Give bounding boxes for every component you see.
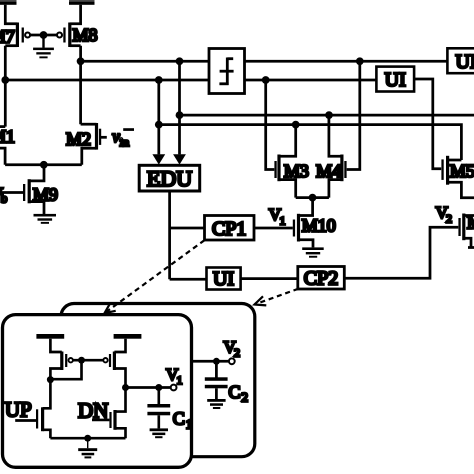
terminal V2 (229, 358, 235, 364)
wire V2 node (back card) (183, 360, 229, 363)
wire riser bus2 to EDU arrow (157, 80, 160, 154)
VDD bar P1 (36, 334, 64, 339)
ground (C2) (207, 399, 225, 409)
dashed arrow CP1 to inset (105, 240, 205, 313)
inset back card (61, 304, 255, 457)
svg-text:M3: M3 (284, 161, 309, 181)
node tail (40, 161, 48, 169)
wire bus3 (180, 114, 474, 117)
svg-text:M8: M8 (73, 25, 98, 45)
node bus1-EDU riser (176, 57, 184, 65)
node gate tie (40, 31, 48, 39)
svg-text:M5: M5 (450, 161, 474, 181)
svg-text:CP2: CP2 (304, 268, 338, 290)
label V2 (inset) (224, 338, 241, 360)
transistor M10 (254, 198, 313, 248)
svg-text:M: M (467, 212, 474, 232)
arrowhead into EDU (left) (152, 154, 165, 164)
transistor DN (92, 388, 126, 439)
svg-text:1: 1 (177, 373, 183, 387)
transistor M8 (57, 5, 81, 47)
VDD bar left (0, 0, 17, 5)
wire UP/DN source rail (50, 437, 125, 440)
wire V1 node (126, 386, 171, 389)
wire bus2 (M7/M1 drains to right) (5, 79, 376, 82)
dashed arrow CP2 to inset (255, 289, 299, 306)
svg-text:UI: UI (385, 69, 406, 91)
transistor M5 (441, 156, 474, 198)
svg-text:M7: M7 (0, 27, 15, 47)
transistor M3 (266, 80, 296, 198)
node C2 branch (213, 358, 220, 365)
label V1 (main) (269, 205, 286, 227)
node P1 drain (47, 376, 54, 383)
ground (M7/M8 gates) (33, 35, 54, 58)
box Schmitt trigger (209, 49, 245, 94)
svg-text:M9: M9 (33, 185, 58, 205)
wire CP2 to V2 transistor gate (344, 227, 458, 278)
wire M7 drain to M1 drain (4, 46, 7, 127)
svg-text:DN: DN (78, 399, 108, 423)
svg-text:2: 2 (446, 211, 452, 225)
node bus3-M4 drain (325, 111, 333, 119)
transistor P2 (PMOS) (103, 339, 125, 388)
node bus2-EDU riser (155, 76, 163, 84)
wire gate tie to P1 drain (50, 360, 81, 379)
wire bus4 (159, 125, 462, 160)
transistor M9 (0, 165, 44, 214)
ground (C1) (150, 428, 168, 438)
VDD bar right (69, 0, 95, 5)
node bus1-M4 riser (356, 57, 364, 65)
box EDU (139, 165, 200, 191)
svg-text:UI: UI (213, 268, 234, 290)
transistor at V2 (cut at right edge) (458, 214, 474, 248)
wire UI to CP2 (241, 277, 298, 280)
ground (M10) (302, 247, 324, 257)
svg-text:M4: M4 (316, 161, 341, 181)
svg-text:M2: M2 (66, 129, 91, 149)
node source rail to M10 (309, 194, 317, 202)
transistor M7 (5, 5, 30, 47)
box UI (middle) (207, 268, 241, 290)
ground (inset) (78, 438, 97, 458)
transistor M4 (329, 61, 360, 197)
transistor M2 (81, 123, 107, 165)
label C1 (173, 408, 193, 431)
node bus4 start (155, 121, 163, 129)
box CP1 (205, 216, 255, 241)
svg-text:C: C (229, 382, 241, 402)
box UI (top middle) (376, 67, 414, 92)
box UI (top right, cut) (447, 48, 474, 73)
label V2 (main) (436, 203, 452, 225)
VDD bar P2 (114, 334, 142, 339)
svg-text:EDU: EDU (147, 166, 192, 191)
node bus2-M3 riser (262, 76, 270, 84)
svg-text:UI: UI (456, 51, 474, 73)
capacitor C2 (205, 361, 228, 399)
transistor M1 (cut at left edge) (0, 127, 5, 165)
transistor P1 (PMOS) (50, 339, 73, 380)
svg-text:M10: M10 (302, 215, 336, 235)
node bus4-M3 drain (292, 121, 300, 129)
node rail-ground (84, 435, 91, 442)
capacitor C1 (147, 388, 170, 429)
node bus3 start (176, 111, 184, 119)
svg-text:2: 2 (242, 390, 249, 405)
label v_in- (112, 127, 134, 149)
wire M3/M4 source rail (296, 196, 329, 199)
wire M8 drain to M2 drain (79, 46, 82, 125)
svg-text:UP: UP (5, 397, 32, 421)
inset front card (3, 315, 192, 468)
wire UI out to M5 gate (414, 79, 441, 169)
arrowhead into EDU (right) (173, 154, 186, 164)
svg-text:M1: M1 (0, 127, 15, 147)
svg-text:b: b (1, 190, 8, 205)
ground (M9) (34, 214, 57, 224)
node bus1-M8 (77, 57, 85, 65)
svg-text:2: 2 (234, 346, 240, 360)
node bus2-M7 (1, 76, 9, 84)
wire M7-M8 gate tie (31, 34, 57, 37)
wire riser bus1 to EDU arrow (178, 61, 181, 154)
node gate tie inset (78, 357, 85, 364)
svg-text:CP1: CP1 (212, 218, 246, 240)
wire EDU down (168, 191, 171, 279)
svg-text:C: C (173, 408, 185, 428)
svg-text:1: 1 (186, 416, 193, 431)
label Vb (0, 184, 7, 206)
svg-text:1: 1 (280, 213, 286, 227)
label V1 (inset) (166, 365, 183, 387)
wire EDU to UI (170, 278, 207, 281)
transistor UP (15, 380, 50, 439)
wire P1-P2 gate tie (73, 359, 103, 362)
box CP2 (298, 267, 345, 290)
wire bus1 (M8/M2 drains to right) (81, 60, 448, 63)
wire EDU to CP1 (170, 227, 205, 230)
node P2 drain V1 (122, 384, 129, 391)
wire tail rail (M1/M2 sources) (5, 163, 82, 166)
node C1 branch (155, 384, 162, 391)
label C2 (229, 382, 249, 405)
svg-text:in: in (120, 135, 129, 149)
terminal V1 (171, 385, 177, 391)
